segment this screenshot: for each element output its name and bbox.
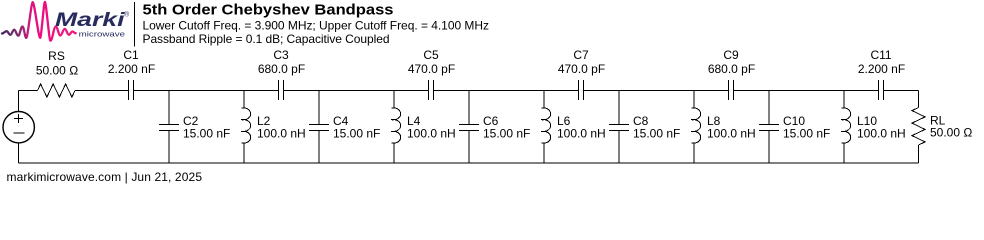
svg-text:Passband Ripple = 0.1 dB; Capa: Passband Ripple = 0.1 dB; Capacitive Cou… xyxy=(143,32,390,46)
svg-text:100.0 nH: 100.0 nH xyxy=(857,126,906,140)
svg-text:15.00 nF: 15.00 nF xyxy=(333,126,380,140)
svg-text:680.0 pF: 680.0 pF xyxy=(708,62,755,76)
svg-text:470.0 pF: 470.0 pF xyxy=(558,62,605,76)
svg-text:15.00 nF: 15.00 nF xyxy=(183,126,230,140)
svg-text:470.0 pF: 470.0 pF xyxy=(408,62,455,76)
svg-text:50.00 Ω: 50.00 Ω xyxy=(930,126,972,140)
svg-text:C5: C5 xyxy=(423,48,439,62)
svg-text:C9: C9 xyxy=(723,48,739,62)
svg-text:2.200 nF: 2.200 nF xyxy=(858,62,905,76)
svg-text:2.200 nF: 2.200 nF xyxy=(108,62,155,76)
svg-text:Marki: Marki xyxy=(55,10,126,31)
svg-text:100.0 nH: 100.0 nH xyxy=(257,126,306,140)
svg-text:15.00 nF: 15.00 nF xyxy=(483,126,530,140)
svg-text:15.00 nF: 15.00 nF xyxy=(783,126,830,140)
svg-text:680.0 pF: 680.0 pF xyxy=(258,62,305,76)
svg-text:RS: RS xyxy=(48,49,65,63)
svg-text:microwave: microwave xyxy=(79,30,125,39)
svg-text:100.0 nH: 100.0 nH xyxy=(557,126,606,140)
svg-text:C3: C3 xyxy=(273,48,289,62)
svg-text:markimicrowave.com | Jun 21, 2: markimicrowave.com | Jun 21, 2025 xyxy=(7,170,203,184)
svg-text:5th Order Chebyshev Bandpass: 5th Order Chebyshev Bandpass xyxy=(143,2,394,19)
svg-text:50.00 Ω: 50.00 Ω xyxy=(36,64,78,78)
svg-text:100.0 nH: 100.0 nH xyxy=(407,126,456,140)
svg-text:C7: C7 xyxy=(573,48,589,62)
svg-text:Lower Cutoff Freq. = 3.900 MHz: Lower Cutoff Freq. = 3.900 MHz; Upper Cu… xyxy=(143,19,490,33)
svg-text:C11: C11 xyxy=(870,48,891,62)
svg-text:100.0 nH: 100.0 nH xyxy=(707,126,756,140)
svg-text:®: ® xyxy=(124,11,130,19)
svg-text:C1: C1 xyxy=(123,48,139,62)
svg-text:15.00 nF: 15.00 nF xyxy=(633,126,680,140)
